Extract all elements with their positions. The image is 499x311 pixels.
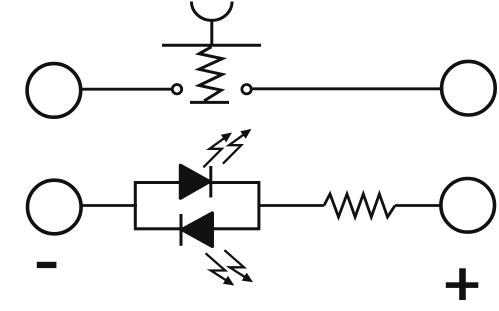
LED D1 (top, pointing right) xyxy=(180,165,211,200)
terminal T2 (top-right circle) xyxy=(442,61,496,115)
terminal T1 (top-left circle) xyxy=(27,64,81,118)
LED D2 (bottom, pointing left) xyxy=(181,212,213,247)
terminal T3 (bottom-left circle) xyxy=(28,180,82,234)
terminal T4 (bottom-right circle) xyxy=(441,179,495,233)
light emission arrow A1 (top-left) xyxy=(203,133,232,168)
wire LED box to resistor xyxy=(258,204,324,207)
light emission arrow A2 (top-right) xyxy=(223,129,252,164)
resistor R1 xyxy=(324,194,395,217)
polarity minus label xyxy=(37,262,57,268)
wire right contact to T2 xyxy=(253,87,442,90)
spring xyxy=(199,47,222,101)
contact circle right xyxy=(242,85,251,94)
light emission arrow A4 (bottom-right) xyxy=(224,250,253,282)
wire T3 to LED box xyxy=(82,204,138,207)
polarity plus label xyxy=(446,268,479,300)
spring base bar xyxy=(190,101,229,104)
actuator bar xyxy=(162,44,261,47)
wire T1 to left contact xyxy=(81,88,171,91)
contact circle left xyxy=(172,85,181,94)
actuator cup (photo receiver arc) xyxy=(191,2,232,21)
light emission arrow A3 (bottom-left) xyxy=(206,253,235,285)
LED box xyxy=(135,183,259,229)
wire cup stem xyxy=(210,20,213,47)
wire resistor to T4 xyxy=(395,204,441,207)
